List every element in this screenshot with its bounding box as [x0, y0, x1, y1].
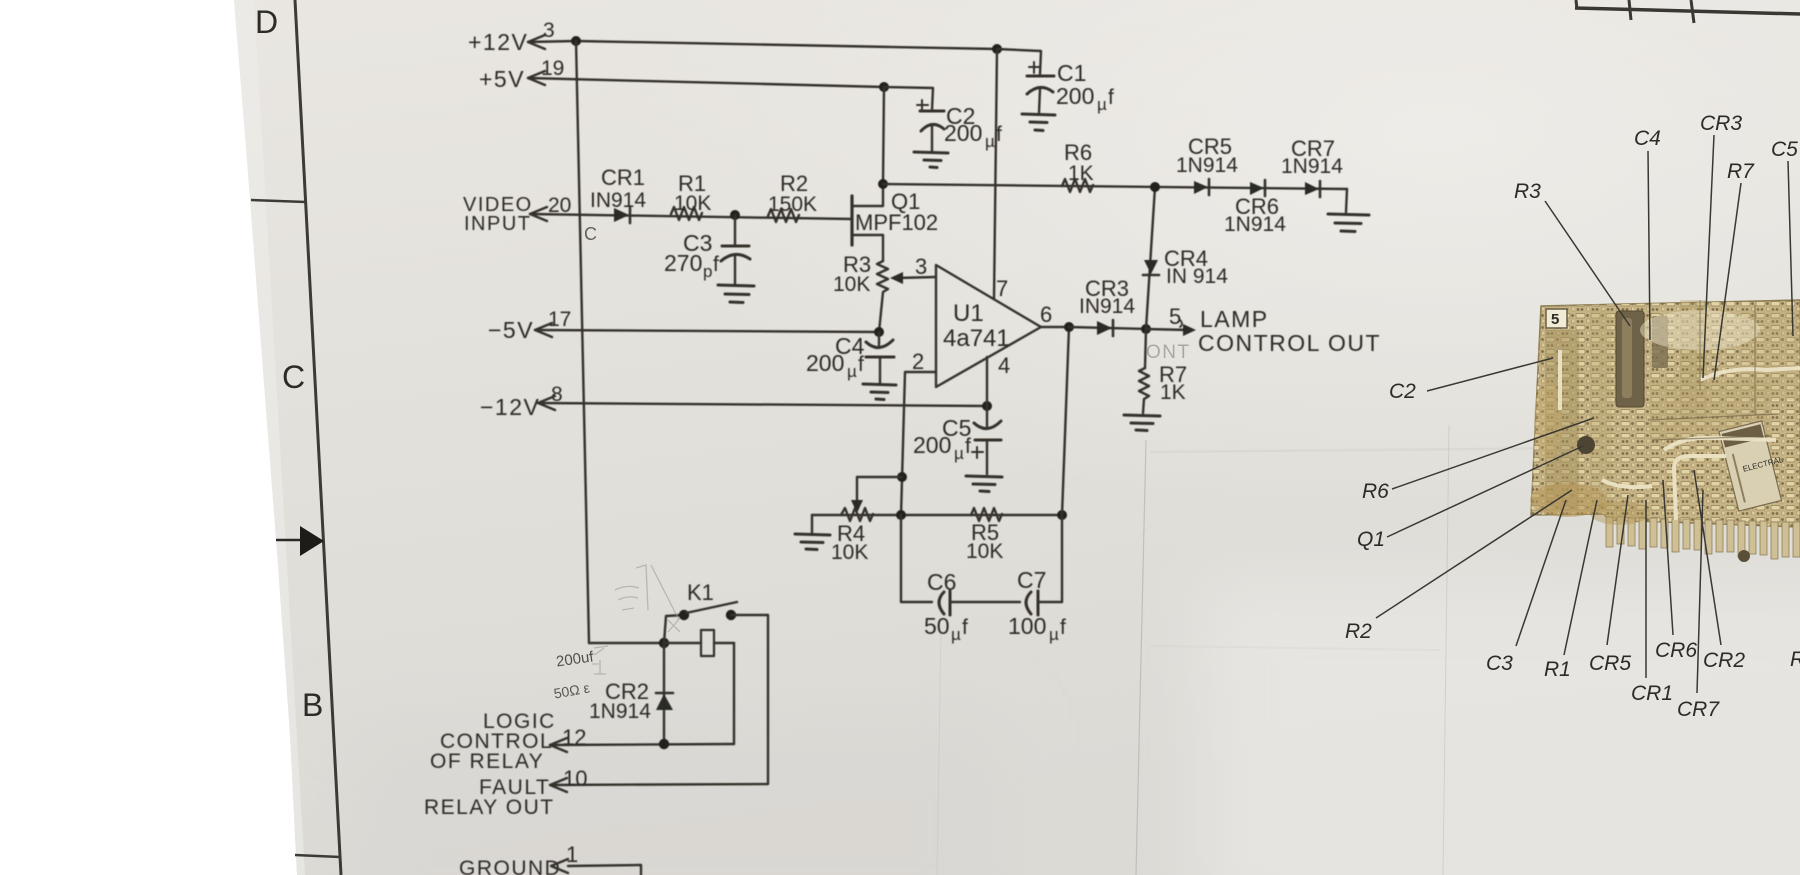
svg-text:CR1: CR1: [601, 165, 645, 190]
node summing junction left: [896, 510, 906, 520]
leader CR5: [1607, 495, 1628, 645]
label R6: [1064, 140, 1094, 185]
node C4 junction: [874, 327, 884, 337]
wire K1 right contact to fault relay out: [550, 615, 768, 785]
svg-text:1N914: 1N914: [1281, 155, 1343, 178]
board edge connector fingers: [1606, 517, 1800, 559]
pin 8 -12V connector label: [480, 383, 563, 420]
svg-text:200: 200: [913, 432, 951, 458]
label R5: [966, 520, 1003, 563]
node C1 rail junction: [992, 44, 1002, 54]
wiper arrow into R3 from pin 3: [897, 277, 936, 278]
svg-text:f: f: [858, 353, 864, 376]
svg-text:CR7: CR7: [1677, 698, 1720, 721]
resistor R2: [768, 209, 799, 222]
svg-text:CR3: CR3: [1700, 112, 1742, 135]
svg-text:OF RELAY: OF RELAY: [430, 750, 544, 773]
wire node up to CR4: [1146, 187, 1155, 329]
svg-text:1N914: 1N914: [1224, 213, 1286, 236]
wire node up to K1 switch left contact: [664, 615, 684, 643]
svg-text:C3: C3: [1486, 652, 1513, 675]
svg-text:100: 100: [1008, 613, 1046, 639]
pin 3 +12V connector label: [468, 19, 555, 55]
svg-text:CR1: CR1: [1631, 682, 1673, 705]
svg-text:IN 914: IN 914: [1166, 265, 1228, 288]
svg-text:3: 3: [915, 254, 927, 279]
wire pin7 drop from +12V node: [994, 49, 997, 299]
svg-text:10K: 10K: [831, 541, 868, 564]
label CR3: [1079, 276, 1135, 318]
node CR2 to logic line: [659, 739, 669, 749]
svg-text:50: 50: [924, 613, 950, 639]
svg-text:200: 200: [1056, 83, 1094, 109]
stains: [1530, 483, 1606, 517]
node +12V vertical tap: [571, 36, 581, 46]
svg-text:CR2: CR2: [1703, 649, 1745, 672]
wire relay coil feed: [664, 642, 734, 644]
svg-text:1K: 1K: [1160, 381, 1186, 404]
leader C2: [1427, 358, 1553, 391]
svg-text:µ: µ: [951, 625, 961, 644]
svg-text:f: f: [965, 435, 971, 458]
board body: [1531, 300, 1800, 527]
resistor R6: [1062, 179, 1093, 192]
node C3 junction: [730, 210, 740, 220]
node Q1 drain junction: [878, 179, 888, 189]
svg-text:3: 3: [543, 19, 555, 42]
title block fragment top right: [1576, 0, 1577, 9]
white margin outside paper, left edge: [0, 0, 297, 875]
svg-text:4: 4: [998, 353, 1010, 378]
label pin 5 lamp control out: [1169, 304, 1381, 356]
leader CR6: [1663, 480, 1673, 635]
arrow +5V: [528, 71, 545, 85]
label LOGIC CONTROL OF RELAY: [430, 710, 556, 773]
big capacitor component dark: [1616, 311, 1644, 407]
svg-text:270: 270: [664, 250, 702, 276]
zone arrow marker: [276, 539, 301, 542]
label C5 value: [913, 415, 971, 463]
label FAULT RELAY OUT: [424, 776, 555, 819]
dark component second: [1659, 171, 1661, 173]
label C2 value: [944, 103, 1002, 151]
diode CR7: [1305, 181, 1320, 197]
svg-text:−5V: −5V: [488, 317, 534, 343]
label U1: [943, 300, 1010, 352]
svg-text:µ: µ: [954, 444, 964, 463]
node diode chain junction: [1150, 182, 1160, 192]
ground diode chain: [1328, 214, 1369, 232]
svg-text:6: 6: [1040, 302, 1052, 327]
svg-text:10: 10: [563, 766, 587, 791]
leader R6: [1392, 418, 1594, 489]
svg-text:f: f: [1108, 86, 1114, 109]
label GROUND pin 1: [459, 842, 578, 875]
svg-text:R1: R1: [1544, 658, 1571, 681]
wire +5V rail: [528, 78, 884, 87]
leader R7: [1714, 183, 1741, 380]
svg-text:17: 17: [548, 308, 571, 331]
resistor R4 potentiometer: [841, 508, 873, 521]
wire summing rail R4/R5: [812, 514, 1062, 516]
capacitor C2: [917, 100, 944, 151]
svg-text:1K: 1K: [1068, 162, 1094, 185]
svg-text:C4: C4: [1634, 127, 1661, 150]
ground C2: [914, 152, 948, 168]
svg-text:LAMP: LAMP: [1200, 306, 1269, 332]
diode CR3: [1097, 320, 1113, 336]
capacitor C7: [1026, 591, 1062, 615]
drawing frame border line (decorative): [295, 0, 341, 875]
wire C3 stem: [734, 215, 736, 245]
svg-text:200: 200: [944, 120, 982, 146]
diode CR6: [1250, 180, 1265, 196]
wire video input line: [530, 214, 852, 219]
svg-text:12: 12: [562, 725, 586, 750]
svg-text:RELAY OUT: RELAY OUT: [424, 796, 555, 819]
svg-text:R3: R3: [1514, 180, 1541, 203]
svg-text:C5: C5: [1771, 138, 1798, 161]
svg-text:1N914: 1N914: [1176, 154, 1238, 177]
wire rail to C1: [997, 49, 1041, 74]
resistor R7: [1139, 368, 1149, 413]
wire coil to logic control line: [733, 643, 735, 744]
svg-text:C7: C7: [1017, 567, 1046, 593]
transistor Q1 MPF102 JFET: [852, 184, 883, 261]
wire feedback right riser: [1062, 327, 1069, 602]
svg-text:5: 5: [1169, 304, 1181, 329]
svg-text:f: f: [996, 123, 1002, 146]
svg-text:K1: K1: [687, 580, 714, 605]
leader C3: [1516, 500, 1566, 646]
svg-text:ONT: ONT: [1146, 342, 1191, 363]
op-amp U1 triangle: [936, 265, 1041, 387]
svg-text:10K: 10K: [966, 540, 1003, 563]
node pin4 / C5 junction: [982, 401, 992, 411]
resistor R3 potentiometer: [877, 261, 888, 332]
pin 20 VIDEO INPUT connector label: [463, 194, 571, 235]
svg-text:f: f: [1060, 616, 1066, 639]
label C1 value: [1056, 60, 1114, 114]
diode CR5: [1194, 179, 1209, 195]
wire +12V rail: [528, 41, 997, 49]
label R3: [833, 252, 871, 296]
svg-text:200: 200: [806, 350, 844, 376]
svg-text:R: R: [1790, 648, 1800, 671]
svg-text:p: p: [703, 262, 712, 281]
svg-text:1N914: 1N914: [589, 700, 651, 723]
label R2: [768, 171, 817, 216]
ground summing rail: [795, 534, 830, 550]
arrow pin 1: [551, 859, 568, 873]
svg-text:µ: µ: [1097, 95, 1107, 114]
diode CR4 pointing down: [1143, 260, 1159, 275]
capacitor C4: [866, 332, 894, 383]
svg-text:1: 1: [566, 842, 578, 867]
svg-text:R2: R2: [1345, 620, 1372, 643]
svg-text:U1: U1: [953, 300, 984, 327]
leader CR3: [1703, 135, 1714, 378]
wire pin 4 to -12V node: [986, 357, 988, 406]
light traces: [1560, 350, 1800, 520]
wire op-amp output: [1041, 326, 1069, 328]
svg-text:C: C: [584, 224, 597, 244]
svg-text:R6: R6: [1362, 480, 1389, 503]
resistor R1: [671, 207, 702, 220]
wire +12V down to relay: [576, 41, 589, 643]
svg-text:CONTROL OUT: CONTROL OUT: [1198, 330, 1381, 356]
svg-text:MPF102: MPF102: [855, 210, 938, 235]
leader R2: [1376, 490, 1572, 618]
label 5 sticker: [1546, 309, 1567, 328]
leader R1: [1564, 500, 1597, 655]
label CR5: [1176, 134, 1238, 177]
wire logic control of relay line pin 12: [550, 744, 734, 745]
label CR7: [1281, 136, 1343, 178]
paper crease lines: [1136, 440, 1146, 875]
IC dark right: [1719, 418, 1793, 511]
node relay feed: [659, 638, 669, 648]
node lamp control junction: [1141, 324, 1151, 334]
leader CR1: [1645, 500, 1647, 678]
diode CR1: [614, 208, 630, 223]
leader CR7: [1697, 490, 1703, 693]
svg-text:IN914: IN914: [1079, 295, 1135, 318]
label Q1: [855, 189, 938, 235]
label C7 value: [1008, 567, 1066, 644]
svg-text:f: f: [962, 616, 968, 639]
capacitor C6: [939, 591, 1020, 615]
label CR2: [589, 679, 651, 723]
svg-text:B: B: [302, 687, 323, 723]
node +5V tap: [879, 82, 889, 92]
label CR1: [590, 165, 646, 212]
svg-text:+12V: +12V: [468, 29, 528, 55]
resistor R5: [971, 508, 1002, 521]
svg-text:CR5: CR5: [1589, 652, 1631, 675]
relay K1 coil: [701, 630, 714, 656]
pin 17 -5V connector label: [488, 308, 571, 343]
wire output to CR3: [1069, 327, 1146, 329]
svg-text:+5V: +5V: [479, 66, 525, 92]
arrow -12V: [538, 396, 555, 410]
wire +5V to C2: [884, 87, 933, 110]
svg-text:19: 19: [541, 57, 564, 80]
svg-text:2: 2: [912, 349, 924, 374]
arrow VIDEO INPUT: [530, 207, 547, 221]
ground R7: [1124, 415, 1160, 431]
ground C3: [718, 285, 754, 303]
leader C5: [1788, 161, 1793, 336]
wire -5V rail: [535, 330, 879, 332]
wire main rail from Q1 drain to diode chain: [883, 184, 1347, 189]
transistor Q1 blob: [1577, 436, 1595, 454]
leader R3: [1545, 201, 1630, 326]
svg-text:IN914: IN914: [590, 189, 646, 212]
ground C1: [1022, 114, 1055, 131]
label C6 value: [924, 569, 968, 644]
board tonal patches: [1545, 300, 1800, 510]
leader Q1: [1387, 446, 1583, 537]
ground C5: [966, 476, 1002, 492]
wire branch to R4 wiper arrow: [857, 477, 902, 505]
wire rail left end down to ground: [811, 515, 813, 533]
label R1: [674, 171, 711, 215]
wire ground line: [568, 865, 641, 875]
svg-text:C6: C6: [927, 569, 956, 595]
label CR4: [1164, 246, 1228, 288]
svg-text:7: 7: [996, 276, 1008, 301]
svg-text:µ: µ: [847, 362, 857, 381]
wire +5V down to Q1 drain rail: [883, 87, 884, 184]
svg-text:−12V: −12V: [480, 394, 540, 420]
svg-text:GROUND: GROUND: [459, 857, 561, 875]
capacitor C1: [1027, 62, 1054, 113]
leader C4: [1648, 151, 1650, 340]
svg-text:10K: 10K: [833, 273, 870, 296]
capacitor C5: [972, 406, 1001, 474]
diode CR2 pointing up: [656, 693, 673, 710]
svg-text:f: f: [713, 253, 719, 276]
svg-text:Q1: Q1: [1357, 528, 1385, 551]
svg-text:4a741: 4a741: [943, 325, 1010, 352]
wire diode chain end to ground: [1346, 189, 1347, 212]
svg-text:CR6: CR6: [1655, 639, 1697, 662]
capacitor C3: [721, 246, 750, 284]
node pin2 branch to R4 wiper: [897, 472, 907, 482]
label C4 value: [806, 333, 865, 381]
leader CR2: [1694, 470, 1721, 645]
svg-text:µ: µ: [1049, 625, 1059, 644]
label R4: [831, 521, 868, 564]
svg-text:R7: R7: [1727, 160, 1755, 183]
label CR6: [1224, 194, 1286, 236]
svg-text:C2: C2: [1389, 380, 1416, 403]
svg-text:D: D: [255, 4, 278, 40]
arrow +12V: [528, 35, 545, 49]
pin 19 +5V connector label: [479, 57, 564, 92]
arrow pin 12: [550, 738, 567, 752]
arrow lamp control out: [1146, 329, 1188, 330]
relay K1 switch contacts and arm: [679, 610, 689, 620]
svg-text:µ: µ: [985, 132, 995, 151]
node output junction: [1064, 322, 1074, 332]
pencil faint sketch near relay: [588, 565, 680, 674]
wire C6 C7 bottom loop left: [901, 515, 932, 602]
label R7: [1159, 362, 1187, 404]
wire node down to R7: [1145, 329, 1146, 368]
svg-text:10K: 10K: [674, 192, 711, 215]
wire CR2 branch down: [663, 643, 665, 744]
node summing junction right: [1057, 510, 1067, 520]
arrow pin 10: [550, 778, 567, 792]
svg-text:150K: 150K: [768, 193, 817, 216]
PCB photograph: [1530, 300, 1800, 562]
label C3 value: [664, 230, 719, 281]
svg-text:C: C: [282, 359, 305, 395]
arrow -5V: [535, 323, 552, 337]
wire pin 2 stub down to summing rail: [901, 372, 936, 516]
wire -12V rail: [538, 403, 987, 406]
svg-text:5: 5: [1551, 311, 1559, 328]
ground C4: [863, 384, 896, 400]
wire +12V feed into relay node: [589, 642, 664, 644]
svg-text:INPUT: INPUT: [464, 213, 532, 235]
